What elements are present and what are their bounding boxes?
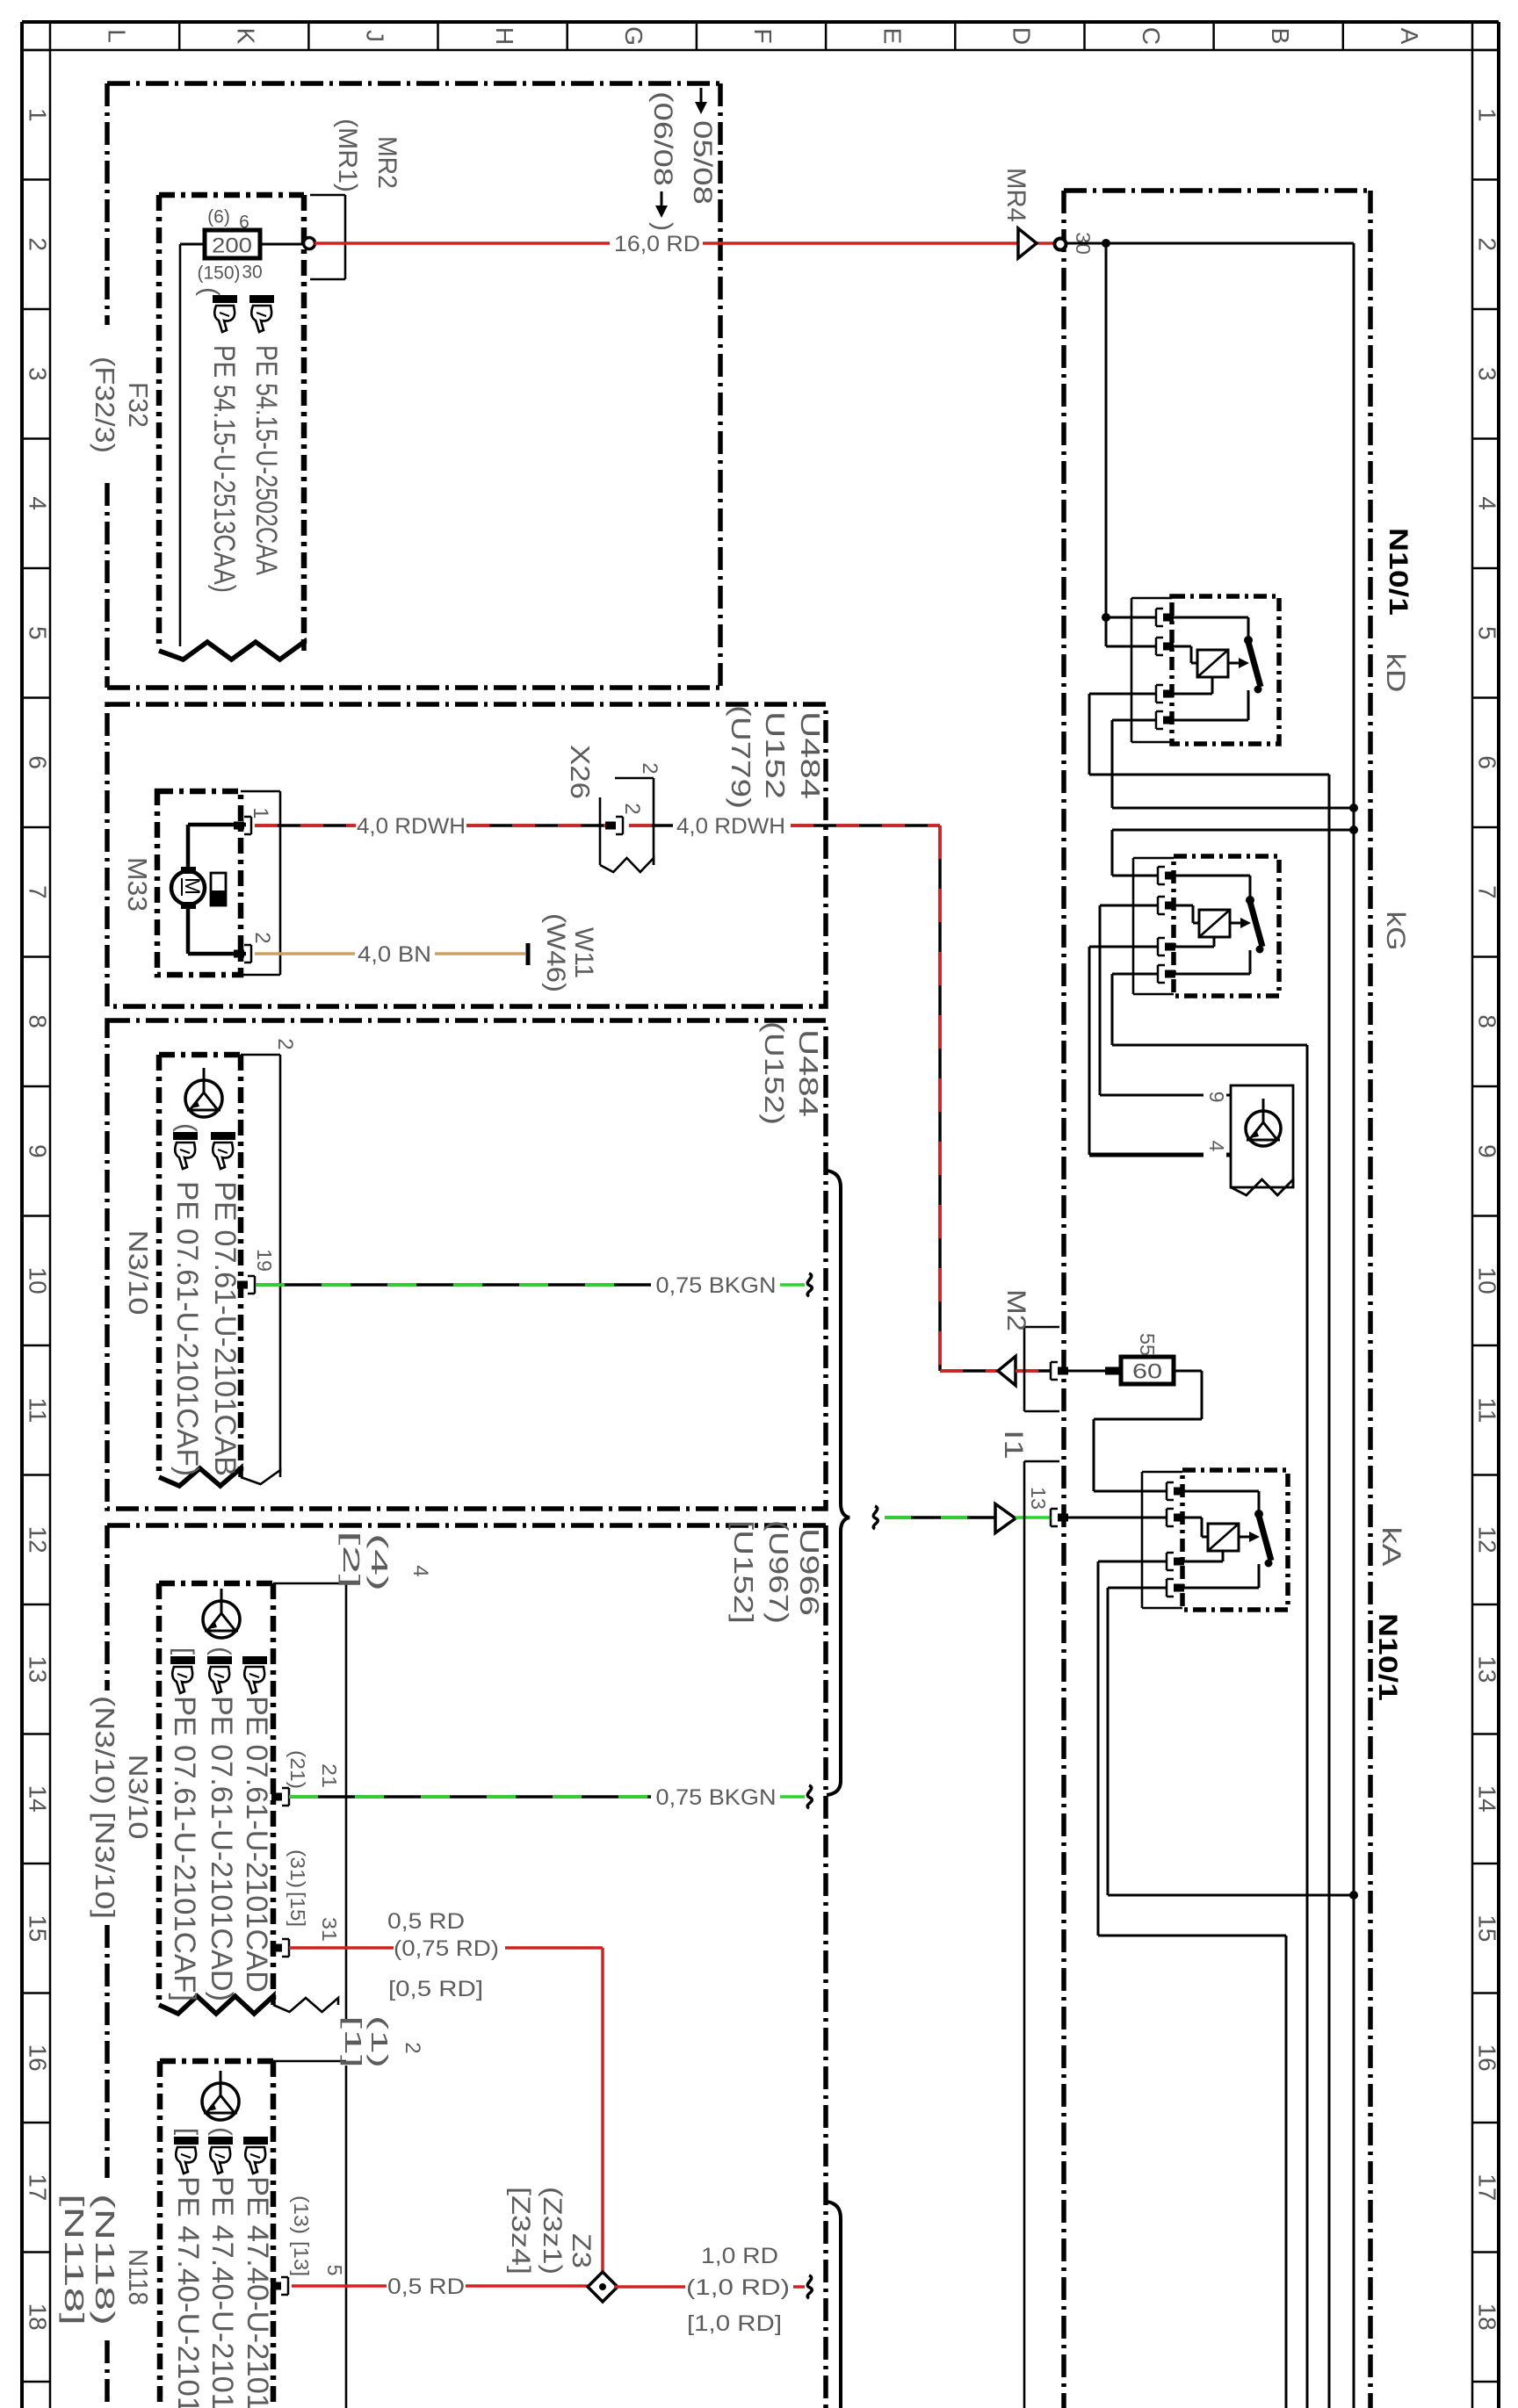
pin label 13: [1027, 1487, 1050, 1510]
wire code PE 47.40 middle: [206, 2176, 239, 2408]
svg-text:[U152]: [U152]: [728, 1520, 759, 1624]
pin label 2: [250, 932, 274, 943]
svg-text:2: 2: [273, 1038, 297, 1049]
wire 16,0 RD segment right: [703, 242, 1054, 245]
svg-text:6: 6: [25, 755, 52, 769]
hand symbol 2 in N3/10: [211, 1132, 235, 1169]
label M2: [1001, 1289, 1030, 1331]
svg-text:31: 31: [318, 1917, 341, 1942]
svg-text:4: 4: [408, 1565, 432, 1576]
svg-text:9: 9: [1205, 1092, 1228, 1103]
wire motor to pin 2: [188, 906, 246, 954]
pin of M2: [1051, 1362, 1068, 1380]
label [N3/10]: [90, 1812, 120, 1919]
svg-text:4: 4: [25, 496, 52, 510]
wire 0,5 RD from pin 31: [289, 1946, 394, 1950]
pin 2 of M33: [234, 945, 251, 962]
wire code PE 54.15-U-2502CAA: [249, 345, 283, 575]
svg-text:MR2: MR2: [372, 136, 401, 189]
wire 0,5 RD to Z3: [466, 2284, 591, 2288]
svg-text:1,0 RD: 1,0 RD: [701, 2244, 778, 2268]
component N118 box (dashed): [160, 2061, 273, 2408]
connector housing of N3/10: [241, 1055, 280, 1484]
svg-text:17: 17: [1474, 2174, 1501, 2201]
hand symbol 3 in N118: [243, 2137, 268, 2174]
label [ left column: [170, 1647, 199, 1655]
wire M2 to fuse 60: [1065, 1367, 1121, 1375]
wire code PE 54.15-U-2513CAA: [207, 345, 241, 593]
pin label (13) [13] 5: [290, 2195, 346, 2276]
junction dot kD pin1: [1102, 613, 1110, 622]
wire code PE 07.61-U-2101CAD): [205, 1696, 238, 2001]
label kG: [1381, 912, 1410, 951]
brace for red wire: [827, 2202, 841, 2408]
svg-text:PE 07.61-U-2101CAD: PE 07.61-U-2101CAD: [240, 1696, 273, 1993]
dash-dot box around F32 fuse box: [107, 83, 720, 688]
wire 4,0 RDWH M33 to X26: [255, 824, 356, 827]
svg-text:[13]: [13]: [290, 2241, 313, 2276]
svg-text:(6): (6): [207, 207, 230, 227]
junction dot kG pin1 bus: [1349, 825, 1358, 834]
svg-text:11: 11: [1474, 1397, 1501, 1423]
pin label 30: [1069, 229, 1095, 258]
electronic symbol in fuse box: [1246, 1099, 1281, 1146]
svg-text:[Z3z4]: [Z3z4]: [506, 2187, 535, 2275]
pin label 55: [1136, 1333, 1159, 1356]
label [N118]: [59, 2194, 90, 2325]
svg-text:8: 8: [25, 1014, 52, 1028]
label W11 (W46): [541, 913, 598, 992]
terminal ring 30: [1055, 239, 1066, 250]
wire 0,75 BKGN second end: [780, 1795, 805, 1799]
wire break squiggle: [807, 1273, 812, 1296]
wire label [0,5 RD]: [388, 1977, 483, 2001]
hand symbol 2 in N3/10 second: [207, 1656, 232, 1693]
dash-dot box N10/1: [1064, 191, 1370, 2408]
svg-text:(31): (31): [286, 1849, 309, 1888]
svg-text:15: 15: [25, 1914, 52, 1942]
svg-text:18: 18: [1474, 2303, 1501, 2331]
svg-text:1: 1: [1474, 108, 1501, 122]
svg-text:F: F: [749, 28, 777, 43]
labels (4) [2] 4 of connector: [338, 1531, 432, 1591]
label MR2 (MR1): [333, 119, 401, 192]
wire 16,0 RD segment left: [314, 242, 610, 245]
connector bracket MR2: [310, 195, 345, 279]
fuse label (150): [197, 263, 240, 284]
fuse pin label 30: [242, 263, 262, 283]
connector X26: [600, 778, 654, 872]
wire code PE 07.61-U-2101CAB: [208, 1181, 242, 1476]
arrow MR4: [1018, 228, 1037, 258]
svg-text:14: 14: [1474, 1785, 1501, 1813]
solder joint Z3: [588, 2272, 618, 2302]
component N3/10 box (dashed): [159, 1055, 241, 1486]
svg-text:1: 1: [249, 807, 272, 818]
wire motor to pin 1: [188, 825, 246, 869]
hand symbol 3 in N3/10 second: [242, 1656, 267, 1693]
connector housing of N118: [273, 2060, 346, 2063]
wire fuse 60 to kA pin1: [1094, 1371, 1202, 1491]
motor symbol M33: [171, 867, 226, 909]
label ( left column N3/10: [172, 1123, 201, 1132]
label X26: [565, 745, 596, 799]
wire kD pin3 to rail: [1089, 694, 1329, 2408]
wire label [1,0 RD]: [687, 2311, 782, 2336]
electronic symbol in N3/10: [185, 1068, 222, 1117]
wire label 4,0 BN: [358, 942, 431, 967]
svg-text:D: D: [1008, 27, 1036, 45]
pin of X26: [605, 817, 623, 834]
svg-text:N118: N118: [123, 2249, 154, 2305]
svg-text:kD: kD: [1381, 653, 1410, 693]
wire kA pin3 to rail: [1098, 1561, 1286, 2408]
svg-text:(N3/10): (N3/10): [90, 1696, 120, 1805]
svg-text:N3/10: N3/10: [123, 1755, 154, 1840]
wire label (1,0 RD): [686, 2275, 790, 2300]
connector M2: [1024, 1327, 1059, 1411]
svg-text:4: 4: [1474, 496, 1501, 510]
svg-text:PE 47.40-U-2101CAD: PE 47.40-U-2101CAD: [241, 2176, 274, 2408]
svg-text:kG: kG: [1381, 912, 1410, 951]
svg-text:3: 3: [1474, 367, 1501, 381]
label (N3/10): [90, 1696, 120, 1805]
wire 0,5 RD to corner: [505, 1946, 603, 1950]
svg-text:2: 2: [25, 237, 52, 251]
svg-text:Z3: Z3: [567, 2233, 596, 2268]
svg-text:0,75 BKGN: 0,75 BKGN: [656, 1785, 777, 1810]
svg-text:L: L: [103, 29, 130, 43]
label ( middle column: [206, 1647, 235, 1655]
hand symbol 1 in N118: [174, 2137, 199, 2174]
wire terminal 30 bus: [1066, 243, 1354, 2408]
svg-text:(W46): (W46): [541, 913, 570, 992]
svg-text:[0,5 RD]: [0,5 RD]: [388, 1977, 483, 2001]
hand symbol 2 in F32: [249, 295, 274, 332]
wire kD pin4 to bus: [1112, 720, 1354, 808]
pin 13 of I1: [1051, 1509, 1068, 1526]
connector housing of N3/10 second: [273, 1583, 346, 2408]
wire 1,0 RD from Z3: [614, 2285, 685, 2289]
relay kG: [1133, 856, 1279, 996]
svg-text:17: 17: [25, 2174, 52, 2201]
label ( N118 middle column: [207, 2127, 236, 2136]
svg-text:PE 54.15-U-2513CAA): PE 54.15-U-2513CAA): [207, 345, 241, 593]
svg-text:2: 2: [1474, 237, 1501, 251]
wire kG pin3 to fuse pin 4: [1089, 947, 1231, 1155]
fuse pin label 6: [239, 213, 249, 233]
svg-text:4: 4: [1205, 1141, 1228, 1152]
relay kD: [1131, 596, 1279, 744]
wire label 0,75 BKGN second: [656, 1785, 777, 1810]
svg-text:W11: W11: [569, 927, 598, 978]
label N10/1: [1384, 528, 1413, 616]
svg-text:[N118]: [N118]: [59, 2194, 90, 2325]
svg-text:7: 7: [25, 885, 52, 899]
svg-text:(06/08: (06/08: [648, 91, 677, 186]
connector I1: [1024, 1461, 1059, 2408]
label [ N118 left column: [173, 2128, 202, 2136]
wire 0,75 BKGN to I1: [885, 1516, 995, 1519]
wire break squiggle 2: [807, 1785, 812, 1808]
svg-text:G: G: [620, 26, 647, 46]
ground W11: [526, 943, 531, 965]
svg-text:16: 16: [1474, 2044, 1501, 2072]
label N118: [123, 2249, 154, 2305]
svg-text:(: (: [207, 2127, 236, 2136]
fuse element box 9/4: [1231, 1085, 1293, 1195]
svg-text:(1): (1): [366, 2015, 393, 2068]
svg-text:MR4: MR4: [1001, 168, 1030, 222]
label M33: [122, 857, 153, 912]
svg-text:(U779): (U779): [726, 705, 756, 809]
svg-text:M2: M2: [1001, 1289, 1030, 1331]
svg-text:13: 13: [25, 1655, 52, 1683]
svg-text:U966: U966: [794, 1528, 825, 1616]
svg-text:[: [: [173, 2128, 202, 2136]
svg-text:(1,0 RD): (1,0 RD): [686, 2275, 790, 2300]
wire 0,5 RD from pin 5: [292, 2284, 387, 2288]
pin label 4: [1204, 1135, 1228, 1157]
wire 0,75 BKGN end: [780, 1283, 805, 1287]
svg-text:2: 2: [250, 932, 274, 943]
label MR4: [1001, 168, 1030, 222]
svg-text:N10/1: N10/1: [1373, 1613, 1402, 1701]
component F32 prefuse box (dashed): [159, 195, 304, 660]
wire label 4,0 RDWH second: [676, 814, 785, 839]
svg-text:05/08: 05/08: [688, 120, 717, 205]
label F32 (F32/3): [90, 357, 154, 453]
relay kA: [1142, 1470, 1288, 1610]
svg-text:(U967): (U967): [763, 1520, 794, 1624]
svg-text:H: H: [491, 27, 518, 45]
svg-text:PE 07.61-U-2101CAB: PE 07.61-U-2101CAB: [208, 1181, 242, 1476]
wire code PE 07.61-U-2101CAF: [170, 1181, 204, 1476]
wire code PE 47.40 left: [171, 2176, 205, 2408]
hand symbol 1 in N3/10 second: [170, 1656, 195, 1693]
svg-text:13: 13: [1474, 1655, 1501, 1683]
svg-text:K: K: [233, 28, 260, 45]
svg-text:X26: X26: [565, 745, 596, 799]
junction dot: [1102, 239, 1110, 248]
svg-text:(21): (21): [286, 1750, 309, 1789]
wire 0,75 BKGN from pin 21: [289, 1795, 651, 1799]
pin count label 2 of X26: [638, 762, 661, 774]
svg-text:8: 8: [1474, 1014, 1501, 1028]
svg-text:(MR1): (MR1): [333, 119, 362, 192]
svg-text:4,0 BN: 4,0 BN: [358, 942, 431, 967]
svg-text:4,0 RDWH: 4,0 RDWH: [357, 814, 466, 839]
svg-text:[N3/10]: [N3/10]: [90, 1812, 120, 1919]
dash-dot box U966 (U967) [U152]: [107, 1525, 826, 2408]
hand symbol 1 in F32: [213, 295, 237, 332]
junction dot kD pin4 bus: [1349, 804, 1358, 812]
svg-text:2: 2: [401, 2042, 424, 2053]
svg-text:30: 30: [242, 263, 262, 283]
wire code PE 07.61-U-2101CAD: [240, 1696, 273, 1993]
svg-text:U152: U152: [760, 711, 791, 799]
wire node to kD pins: [1106, 243, 1157, 646]
svg-text:N10/1: N10/1: [1384, 528, 1413, 616]
svg-text:10: 10: [25, 1267, 52, 1294]
wire code PE 47.40 right: [241, 2176, 274, 2408]
svg-text:(F32/3): (F32/3): [90, 357, 120, 453]
dash-dot box U484 (U152): [107, 1020, 826, 1509]
svg-text:A: A: [1396, 28, 1423, 45]
svg-text:6: 6: [1474, 755, 1501, 769]
pin label 9: [1204, 1085, 1228, 1108]
svg-text:5: 5: [323, 2265, 346, 2276]
label N3/10 second: [123, 1755, 154, 1840]
svg-text:0,5 RD: 0,5 RD: [387, 1909, 465, 1934]
svg-text:9: 9: [1474, 1144, 1501, 1158]
svg-text:60: 60: [1132, 1360, 1162, 1384]
wire 4,0 RDWH to N10/1 area: [791, 824, 940, 827]
label (06/08 arrow): [648, 91, 677, 231]
svg-text:4,0 RDWH: 4,0 RDWH: [676, 814, 785, 839]
wire label 16,0 RD: [614, 232, 700, 256]
electronic symbol in N3/10 second: [203, 1589, 240, 1638]
svg-text:16,0 RD: 16,0 RD: [614, 232, 700, 256]
wire 0,75 BKGN into pin 13: [1016, 1516, 1051, 1519]
svg-text:F32: F32: [123, 382, 154, 428]
svg-text:13: 13: [1027, 1487, 1050, 1510]
svg-text:15: 15: [1474, 1914, 1501, 1942]
wire 0,75 BKGN from pin 19: [256, 1283, 651, 1287]
svg-text:18: 18: [25, 2303, 52, 2331]
svg-text:PE 47.40-U-2101CAF]: PE 47.40-U-2101CAF]: [171, 2176, 205, 2408]
junction dot kA pin4 bus: [1349, 1891, 1358, 1900]
label kA: [1377, 1527, 1406, 1567]
svg-text:(: (: [172, 1123, 201, 1132]
label N10/1 second: [1373, 1613, 1402, 1701]
fuse label (6): [207, 207, 230, 227]
svg-text:6: 6: [239, 213, 249, 233]
svg-text:(: (: [195, 287, 224, 296]
svg-text:C: C: [1138, 27, 1165, 45]
svg-text:[: [: [170, 1647, 199, 1655]
svg-text:(4): (4): [366, 1533, 393, 1591]
pin count label 2 of N3/10: [273, 1038, 297, 1049]
svg-text:5: 5: [25, 626, 52, 640]
svg-text:PE 07.61-U-2101CAF): PE 07.61-U-2101CAF): [170, 1181, 204, 1476]
wire code PE 07.61-U-2101CAF]: [168, 1696, 201, 2001]
svg-text:19: 19: [253, 1249, 276, 1272]
svg-text:(U152): (U152): [759, 1021, 790, 1125]
wire I1 pin13 to kA pin2: [1065, 1517, 1167, 1519]
svg-text:0,75 BKGN: 0,75 BKGN: [656, 1273, 777, 1298]
svg-text:N3/10: N3/10: [123, 1230, 154, 1316]
svg-text:5: 5: [1474, 626, 1501, 640]
pin 31 of N3/10 second: [271, 1939, 289, 1957]
svg-text:[1]: [1]: [340, 2015, 366, 2068]
svg-text:kA: kA: [1377, 1527, 1406, 1567]
svg-text:200: 200: [212, 234, 252, 258]
svg-text:J: J: [362, 30, 389, 42]
svg-text:55: 55: [1136, 1333, 1159, 1356]
wire 0,5 RD down to Z3: [601, 1948, 604, 2276]
svg-text:12: 12: [25, 1526, 52, 1554]
wire label (0,75 RD): [394, 1936, 499, 1961]
label (N118): [90, 2194, 120, 2325]
svg-text:I1: I1: [999, 1430, 1028, 1460]
label Z3 (Z3z1) [Z3z4]: [506, 2187, 596, 2275]
svg-text:[15]: [15]: [286, 1892, 309, 1927]
wire label 4,0 RDWH: [357, 814, 466, 839]
electronic symbol in N118: [202, 2071, 239, 2120]
svg-text:PE 07.61-U-2101CAF]: PE 07.61-U-2101CAF]: [168, 1696, 201, 2001]
svg-text:[1,0 RD]: [1,0 RD]: [687, 2311, 782, 2336]
svg-text:PE 54.15-U-2502CAA: PE 54.15-U-2502CAA: [249, 345, 283, 575]
svg-text:2: 2: [638, 762, 661, 774]
svg-text:(: (: [206, 1647, 235, 1655]
svg-text:PE 47.40-U-2101CAD): PE 47.40-U-2101CAD): [206, 2176, 239, 2408]
wire break squiggle 3: [873, 1506, 878, 1529]
wire label 0,5 RD: [387, 1909, 465, 1934]
svg-text:E: E: [878, 28, 906, 45]
label U966 (U967) [U152]: [728, 1520, 825, 1624]
component N3/10 second box (dashed): [159, 1583, 273, 2014]
svg-text:(Z3z1): (Z3z1): [538, 2187, 567, 2275]
label U484 (U152): [759, 1021, 824, 1125]
pin label 19: [253, 1249, 276, 1272]
wire kG pin4 to rail: [1112, 974, 1307, 2408]
svg-text:21: 21: [318, 1763, 341, 1788]
wire inside F32: [180, 244, 205, 646]
svg-text:(13): (13): [290, 2195, 313, 2234]
wire label 0,75 BKGN: [656, 1273, 777, 1298]
component M33 blower motor box (dashed): [157, 791, 241, 975]
svg-text:PE 07.61-U-2101CAD): PE 07.61-U-2101CAD): [205, 1696, 238, 2001]
fuse 55/60: [1121, 1357, 1174, 1384]
wire 4,0 RDWH X26 to right: [629, 824, 673, 827]
wire break squiggle 4: [807, 2275, 812, 2298]
wire label 1,0 RD: [701, 2244, 778, 2268]
svg-text:9: 9: [25, 1144, 52, 1158]
svg-text:3: 3: [25, 367, 52, 381]
svg-text:U484: U484: [793, 1029, 824, 1117]
wire kG pin1 from bus: [1112, 830, 1354, 876]
svg-text:M33: M33: [122, 857, 153, 912]
pin 19 of N3/10: [237, 1276, 255, 1294]
pin label 1: [249, 807, 272, 818]
svg-text:7: 7: [1474, 885, 1501, 899]
wire kA pin4 to bus: [1108, 1588, 1354, 1895]
arrow M2: [998, 1357, 1016, 1386]
pin label (21) 21: [286, 1750, 341, 1789]
svg-text:B: B: [1267, 28, 1294, 45]
svg-text:14: 14: [25, 1785, 52, 1813]
label I1: [999, 1430, 1028, 1460]
wire kG pin2 to fuse pin 9: [1100, 905, 1231, 1095]
label ( of F32 left column: [195, 287, 224, 296]
hand symbol 2 in N118: [208, 2137, 233, 2174]
svg-text:U484: U484: [795, 711, 826, 799]
label N3/10: [123, 1230, 154, 1316]
wire 4,0 RDWH down to M2: [940, 825, 998, 1371]
wire fuse to node: [260, 243, 304, 246]
hand symbol 1 in N3/10: [173, 1132, 198, 1169]
svg-text:0,5 RD: 0,5 RD: [387, 2275, 465, 2299]
pin 5 of N118: [271, 2277, 288, 2295]
svg-text:2: 2: [620, 803, 644, 814]
svg-text:16: 16: [25, 2044, 52, 2072]
fuse 200 (F32/3 fuse f200): [205, 230, 260, 258]
pin 21 of N3/10 second: [271, 1788, 289, 1806]
svg-text:): ): [648, 222, 677, 231]
pin 1 of M33: [234, 817, 251, 834]
pin number 2 inside X26: [620, 803, 644, 814]
